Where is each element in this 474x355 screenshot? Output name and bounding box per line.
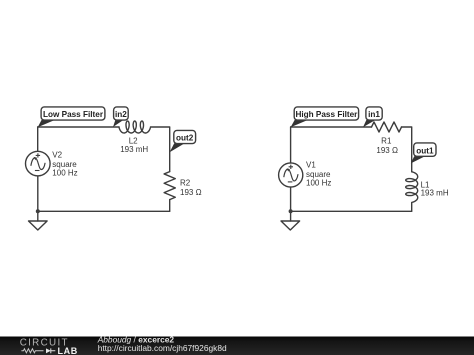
voltage source V1 — [279, 163, 303, 187]
resistor R1 — [372, 122, 402, 132]
label box High Pass Filter — [294, 107, 358, 120]
ground right — [281, 221, 300, 230]
logo resistor glyph — [21, 349, 43, 353]
svg-text:R1: R1 — [381, 137, 392, 146]
junction node right — [289, 209, 293, 213]
wire source top right circuit — [290, 127, 292, 163]
svg-text:Low Pass Filter: Low Pass Filter — [43, 110, 104, 119]
svg-text:V2: V2 — [52, 151, 62, 160]
inductor L1 — [406, 172, 418, 202]
wire bottom rail left circuit — [38, 210, 170, 212]
label box in2 — [114, 107, 129, 120]
wire L1 bottom — [411, 202, 413, 211]
label tail in2 — [113, 120, 124, 127]
wire L2 to out2 corner — [151, 127, 170, 172]
ground left — [29, 221, 48, 230]
wire source bottom left circuit — [37, 176, 39, 221]
svg-text:R2: R2 — [180, 179, 191, 188]
svg-text:LAB: LAB — [58, 346, 78, 355]
svg-text:V1: V1 — [306, 161, 316, 170]
wire R1 to corner — [402, 127, 412, 172]
junction node left — [36, 209, 40, 213]
svg-text:http://circuitlab.com/cjh67f92: http://circuitlab.com/cjh67f926gk8d — [98, 343, 227, 353]
label tail out2 — [170, 143, 185, 152]
svg-text:square: square — [306, 170, 331, 179]
svg-text:193 mH: 193 mH — [120, 145, 148, 154]
inductor L2 — [119, 121, 150, 133]
V1 glyph arrowhead — [287, 168, 290, 171]
svg-text:193 mH: 193 mH — [421, 189, 449, 198]
label box Low Pass Filter — [41, 107, 105, 120]
wire bottom rail right circuit — [290, 210, 411, 212]
svg-text:square: square — [52, 160, 77, 169]
wire source top left circuit — [37, 127, 39, 151]
svg-text:out2: out2 — [176, 134, 194, 143]
V1 source glyph — [284, 165, 298, 182]
svg-text:out1: out1 — [416, 146, 434, 155]
svg-text:100 Hz: 100 Hz — [52, 169, 77, 178]
svg-text:in1: in1 — [368, 110, 380, 119]
wire source bottom right circuit — [290, 187, 292, 221]
label box in1 — [366, 107, 382, 120]
V2 glyph arrowhead — [34, 157, 37, 160]
svg-text:in2: in2 — [115, 110, 127, 119]
wire R2 bottom — [169, 200, 171, 212]
label tail High Pass Filter — [291, 120, 308, 127]
V2 source glyph — [31, 153, 45, 170]
svg-text:193 Ω: 193 Ω — [376, 146, 398, 155]
label tail in1 — [363, 120, 376, 127]
wire top rail left circuit — [38, 126, 119, 128]
svg-text:High Pass Filter: High Pass Filter — [295, 110, 358, 119]
svg-text:L2: L2 — [129, 136, 138, 145]
label box out1 — [414, 143, 436, 156]
svg-text:100 Hz: 100 Hz — [306, 179, 331, 188]
label tail out1 — [411, 156, 425, 163]
logo diode glyph — [46, 348, 51, 353]
label box out2 — [174, 130, 196, 143]
wire top rail right circuit — [291, 126, 372, 128]
label tail Low Pass Filter — [38, 120, 55, 127]
svg-text:193 Ω: 193 Ω — [180, 188, 202, 197]
voltage source V2 — [26, 151, 51, 176]
component texts — [52, 136, 449, 197]
resistor R2 — [164, 172, 175, 200]
